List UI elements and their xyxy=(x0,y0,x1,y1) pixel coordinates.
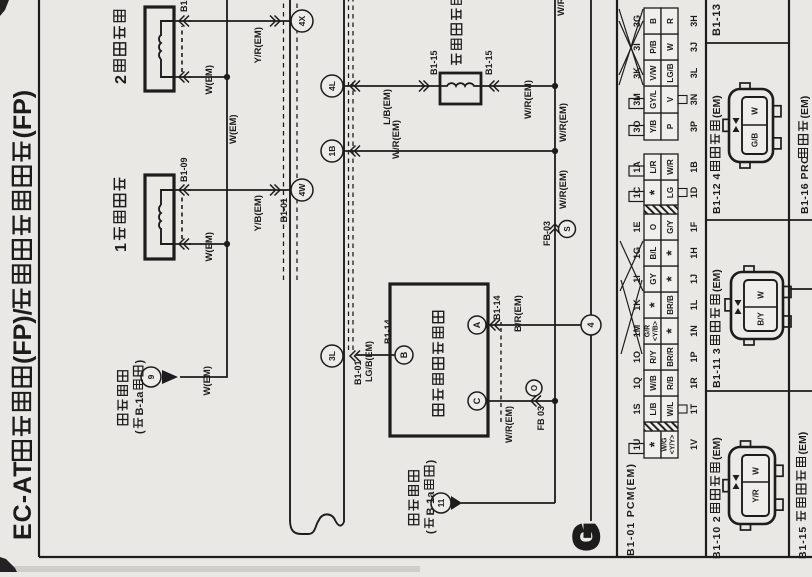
svg-text:1F: 1F xyxy=(689,221,699,232)
svg-text:W/R(EM): W/R(EM) xyxy=(556,0,567,16)
circle 4W connector xyxy=(270,185,280,196)
connector FB-03 chevron on bus xyxy=(550,224,561,234)
connector dashed line injector No.1 xyxy=(181,195,183,239)
svg-text:BR/B: BR/B xyxy=(666,295,675,315)
svg-text:W: W xyxy=(752,467,761,475)
crossing wires marks 1G-1I xyxy=(620,241,643,291)
svg-text:G/Y: G/Y xyxy=(666,219,675,233)
svg-text:(EM): (EM) xyxy=(799,96,811,119)
svg-text:4L: 4L xyxy=(327,81,337,91)
junction dot C wire xyxy=(552,398,558,404)
svg-text:9: 9 xyxy=(146,374,156,379)
connector chevrons injector No.1 xyxy=(179,185,189,196)
scan edge shading xyxy=(0,566,420,572)
svg-text:S: S xyxy=(563,226,572,232)
svg-text:(: ( xyxy=(425,530,437,534)
svg-text:B1-15: B1-15 xyxy=(484,50,494,75)
svg-text:2: 2 xyxy=(113,75,130,84)
svg-text:1R: 1R xyxy=(689,377,699,389)
svg-text:B1-01 PCM(EM): B1-01 PCM(EM) xyxy=(625,463,637,556)
svg-text:*: * xyxy=(663,276,679,282)
svg-text:3O: 3O xyxy=(632,120,642,132)
svg-text:*: * xyxy=(663,250,679,256)
injector No.1 coil xyxy=(161,190,174,205)
svg-text:3H: 3H xyxy=(689,15,699,27)
svg-text:1Q: 1Q xyxy=(632,377,642,389)
svg-text:V: V xyxy=(666,96,675,102)
svg-text:P/B: P/B xyxy=(649,40,658,54)
wire to ground xyxy=(590,0,592,521)
svg-text:FB-03: FB-03 xyxy=(542,221,552,246)
svg-text:): ) xyxy=(425,460,437,464)
svg-text:W: W xyxy=(666,43,675,51)
svg-text:L/B(EM): L/B(EM) xyxy=(382,89,393,125)
wire W/R(EM) from 1B to bus xyxy=(344,150,555,152)
dashed companion lines bus 1 xyxy=(283,0,285,280)
injector No.1 terminal wires xyxy=(174,189,191,191)
dashed connector line B1-14 xyxy=(500,322,502,422)
pin stubs above xyxy=(629,99,644,109)
svg-text:3I: 3I xyxy=(632,43,642,51)
svg-text:R/B: R/B xyxy=(666,376,675,390)
crossing wires marks 3G-3K xyxy=(619,9,643,85)
svg-text:G: G xyxy=(568,524,606,550)
svg-text:GY/L: GY/L xyxy=(649,90,658,109)
svg-text:Y/B: Y/B xyxy=(649,120,658,134)
svg-text:(FP)/: (FP)/ xyxy=(9,308,37,364)
injector No.2 coil xyxy=(161,21,174,36)
svg-text:C: C xyxy=(472,397,482,404)
svg-text:(FP): (FP) xyxy=(9,90,37,139)
svg-text:1: 1 xyxy=(113,243,130,252)
PCM pin grid xyxy=(644,431,661,458)
wire W/R(EM) C terminal to bus xyxy=(486,400,555,402)
svg-text:1C: 1C xyxy=(632,186,642,198)
frame border top xyxy=(38,0,40,557)
divider line bottom band B1-15 xyxy=(789,288,812,290)
svg-text:B1-12 4: B1-12 4 xyxy=(711,173,723,214)
svg-text:Y/R: Y/R xyxy=(752,489,761,503)
PCM connector table border 3 xyxy=(788,0,790,557)
wire W(EM) bus xyxy=(180,0,227,377)
svg-text:G/B: G/B xyxy=(751,133,760,147)
svg-text:W/R(EM): W/R(EM) xyxy=(504,406,514,443)
svg-text:W: W xyxy=(757,291,766,299)
svg-text:): ) xyxy=(134,360,146,364)
svg-text:A: A xyxy=(472,321,482,328)
svg-text:B-1a: B-1a xyxy=(425,491,437,516)
PCM connector table border 1 xyxy=(616,0,618,557)
svg-text:Y/R(EM): Y/R(EM) xyxy=(253,27,264,63)
svg-text:(: ( xyxy=(134,430,146,434)
circle O xyxy=(526,380,542,396)
chevron B1-15 upper xyxy=(419,81,429,92)
svg-text:W/R: W/R xyxy=(666,159,675,175)
svg-text:B/R(EM): B/R(EM) xyxy=(513,295,524,332)
svg-text:B-1a: B-1a xyxy=(134,391,146,416)
wire W(EM) from injector 2 xyxy=(189,76,227,78)
svg-text:W/R(EM): W/R(EM) xyxy=(391,120,402,159)
svg-text:*: * xyxy=(663,328,679,334)
svg-text:O: O xyxy=(649,224,658,230)
dashed companion lines bus 2 xyxy=(348,0,350,350)
junction dot purge xyxy=(552,83,558,89)
chevron B1-15 lower xyxy=(489,81,499,92)
svg-text:*: * xyxy=(646,441,662,447)
terminal circle C xyxy=(468,392,486,410)
svg-text:W/R(EM): W/R(EM) xyxy=(558,103,569,142)
U-turn with wire hop xyxy=(290,514,344,534)
svg-text:1U: 1U xyxy=(632,439,642,451)
svg-text:1J: 1J xyxy=(689,274,699,284)
svg-text:B1-01: B1-01 xyxy=(279,198,289,223)
svg-text:4: 4 xyxy=(586,322,596,327)
svg-text:3M: 3M xyxy=(632,93,642,106)
svg-text:4X: 4X xyxy=(297,15,307,26)
frame border left xyxy=(39,556,812,558)
svg-text:W/G: W/G xyxy=(662,437,669,452)
purge solenoid box xyxy=(440,73,481,104)
connector face B1-10 injector2 xyxy=(773,499,783,510)
svg-text:B1-11 3: B1-11 3 xyxy=(711,348,723,388)
svg-text:B1-14: B1-14 xyxy=(383,319,393,344)
svg-text:B/L: B/L xyxy=(649,246,658,259)
svg-text:1B: 1B xyxy=(689,161,699,173)
svg-text:O: O xyxy=(530,385,539,391)
svg-text:R/Y: R/Y xyxy=(649,350,658,364)
svg-text:1V: 1V xyxy=(689,439,699,450)
svg-text:R: R xyxy=(666,18,675,24)
scan corner artifact top-left xyxy=(0,557,17,572)
svg-text:(EM): (EM) xyxy=(711,95,723,118)
wire LG/B(EM) B terminal to 3L xyxy=(356,354,395,356)
svg-text:(EM): (EM) xyxy=(711,437,723,460)
svg-text:Y/B(EM): Y/B(EM) xyxy=(253,195,264,231)
wire W/R(EM) purge to bus xyxy=(481,85,555,87)
svg-text:B1-09: B1-09 xyxy=(179,157,189,182)
svg-text:W(EM): W(EM) xyxy=(204,232,215,262)
svg-text:1E: 1E xyxy=(632,221,642,232)
svg-text:1N: 1N xyxy=(689,325,699,337)
main relay arrow (to relay) node 9 xyxy=(162,370,178,384)
svg-text:1O: 1O xyxy=(632,351,642,363)
svg-text:3P: 3P xyxy=(689,121,699,132)
svg-text:1P: 1P xyxy=(689,351,699,362)
injector No.2 box B1-10 xyxy=(145,7,174,91)
circle 9 main relay xyxy=(141,367,161,387)
wire B/R(EM) A terminal to circle 4 xyxy=(486,324,581,326)
svg-text:W(EM): W(EM) xyxy=(204,65,215,95)
terminal circle A xyxy=(468,316,486,334)
crossing wires marks 1I-1M xyxy=(621,280,642,354)
svg-text:3J: 3J xyxy=(689,42,699,52)
svg-text:1H: 1H xyxy=(689,247,699,259)
main relay label 主继电器(见B-1a部分) lower xyxy=(409,514,419,525)
circle 4L connector xyxy=(321,75,343,97)
scan corner artifact top-right xyxy=(0,0,9,16)
svg-text:*: * xyxy=(646,302,662,308)
wire W/R(EM) main bus xyxy=(554,0,556,503)
circle 11 main relay xyxy=(431,493,451,513)
svg-text:4W: 4W xyxy=(297,183,307,197)
svg-text:BR/R: BR/R xyxy=(666,347,675,367)
connector dashed line injector No.2 xyxy=(181,26,183,72)
svg-text:3L: 3L xyxy=(327,351,337,361)
svg-text:B1-01: B1-01 xyxy=(353,360,363,385)
divider line B1-12/B1-11 xyxy=(706,219,812,221)
wire L/B(EM) 4L to purge solenoid xyxy=(344,85,440,87)
svg-text:B1-15: B1-15 xyxy=(797,526,809,559)
svg-text:B: B xyxy=(649,18,658,24)
terminal circle B xyxy=(395,346,413,364)
wire bus line 1 (4X/4W) xyxy=(289,0,291,521)
svg-text:W/B: W/B xyxy=(649,375,658,391)
connector face B1-11 injector3 xyxy=(781,316,791,327)
circle 1B connector xyxy=(321,140,343,162)
svg-text:GY: GY xyxy=(649,273,658,285)
svg-text:W/R(EM): W/R(EM) xyxy=(523,80,534,119)
PCM connector table border 2 xyxy=(705,0,707,557)
pin stubs below xyxy=(678,96,687,104)
circle 4 connector xyxy=(581,315,601,335)
svg-text:W/L: W/L xyxy=(666,402,675,417)
svg-text:W(EM): W(EM) xyxy=(202,366,213,396)
svg-text:3L: 3L xyxy=(689,67,699,78)
svg-text:LG/B: LG/B xyxy=(666,63,675,82)
connector face B1-12 injector4 xyxy=(771,138,781,149)
svg-text:W/R(EM): W/R(EM) xyxy=(558,170,569,209)
svg-text:<Y/B>: <Y/B> xyxy=(653,321,660,341)
svg-text:1S: 1S xyxy=(632,403,642,414)
svg-text:LG: LG xyxy=(666,187,675,198)
svg-text:L/B: L/B xyxy=(649,402,658,415)
svg-text:B1-14: B1-14 xyxy=(492,295,502,320)
svg-text:V/W: V/W xyxy=(649,65,658,81)
svg-text:W(EM): W(EM) xyxy=(228,114,239,144)
divider line B1-11/B1-10 xyxy=(706,390,812,392)
injector No.2 terminal wires xyxy=(174,20,191,22)
wire bus line 2 (4L/1B/3L) xyxy=(343,0,345,522)
circle 3L connector xyxy=(321,345,343,367)
junction dot injector2 W xyxy=(224,74,230,80)
svg-text:B1-16 PRC: B1-16 PRC xyxy=(799,156,811,214)
circle S xyxy=(559,221,576,238)
svg-text:W: W xyxy=(751,107,760,115)
connector chevrons injector No.2 xyxy=(179,16,189,27)
circle 4X connector xyxy=(270,16,280,27)
purge solenoid label 排污电磁阀 xyxy=(452,53,461,65)
air flow sensor box xyxy=(390,284,488,436)
main relay 11 branch wire xyxy=(461,502,555,504)
svg-text:3N: 3N xyxy=(689,94,699,106)
wire Y/R(EM) from injector 2 to 4X xyxy=(189,20,291,22)
svg-text:1A: 1A xyxy=(632,161,642,173)
svg-text:1L: 1L xyxy=(689,299,699,310)
svg-text:1D: 1D xyxy=(689,186,699,198)
svg-text:B: B xyxy=(399,351,409,358)
wire W(EM) from injector 1 xyxy=(189,243,227,245)
svg-text:B1-13: B1-13 xyxy=(711,4,723,36)
air flow sensor label 空气流量传感器 xyxy=(433,404,444,415)
svg-text:P: P xyxy=(666,123,675,129)
svg-text:B1-1: B1-1 xyxy=(179,0,189,12)
svg-text:11: 11 xyxy=(437,498,446,507)
svg-text:FB 03: FB 03 xyxy=(536,406,546,431)
svg-text:<Y/Y>: <Y/Y> xyxy=(670,435,677,454)
junction dot 1B wire xyxy=(552,148,558,154)
svg-text:B1-15: B1-15 xyxy=(429,50,439,75)
purge solenoid coil xyxy=(440,83,481,86)
svg-text:G/R: G/R xyxy=(645,325,652,337)
svg-text:(EM): (EM) xyxy=(797,432,809,455)
svg-text:B/Y: B/Y xyxy=(757,312,766,326)
svg-text:1T: 1T xyxy=(689,403,699,414)
main relay label 主继电器(见B-1a部分) xyxy=(118,414,128,425)
svg-text:1B: 1B xyxy=(327,146,337,157)
svg-text:LG/B(EM): LG/B(EM) xyxy=(364,341,374,382)
injector No.1 box B1-09 xyxy=(145,175,174,259)
svg-text:EC-AT: EC-AT xyxy=(9,460,37,540)
svg-text:*: * xyxy=(646,189,662,195)
wire Y/B(EM) from injector 1 to 4W xyxy=(189,189,291,191)
svg-text:B1-10 2: B1-10 2 xyxy=(711,515,723,559)
svg-text:L/R: L/R xyxy=(649,160,658,173)
divider line B1-13/B1-12 xyxy=(705,42,789,44)
junction dot injector1 W xyxy=(224,241,230,247)
svg-text:(EM): (EM) xyxy=(711,269,723,292)
